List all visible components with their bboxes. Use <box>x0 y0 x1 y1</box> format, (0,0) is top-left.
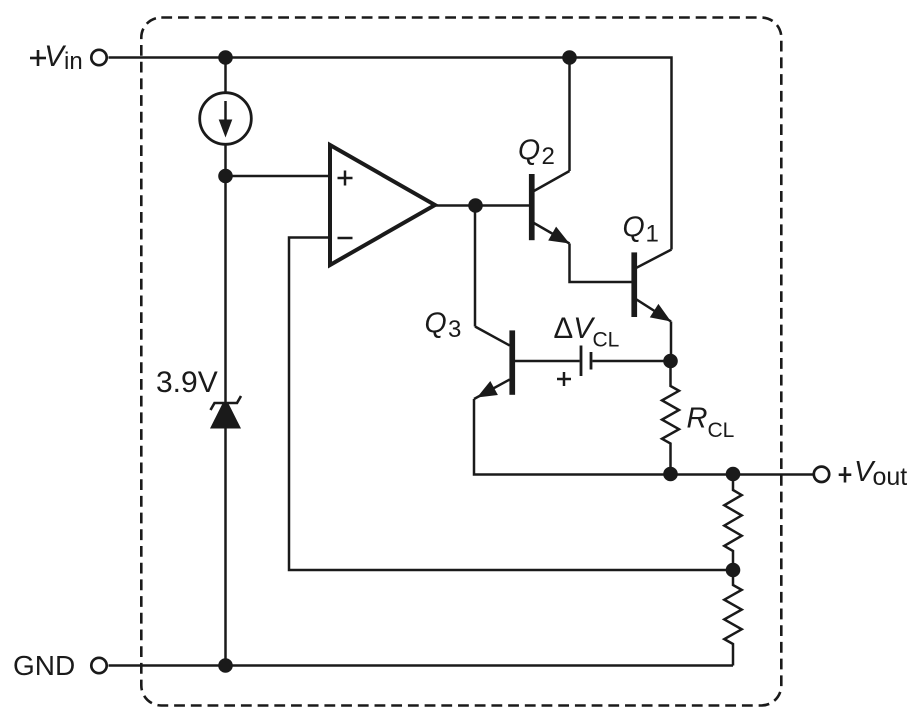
resistor R1 (upper divider) <box>724 475 741 571</box>
resistor R2 (lower divider) <box>724 570 741 666</box>
node: junction dot RCL bottom on output rail <box>663 467 678 482</box>
zener diode D1 (3.9V) <box>210 396 241 429</box>
wire: ground rail <box>109 664 734 667</box>
svg-text:CL: CL <box>593 329 620 352</box>
svg-text:R: R <box>687 403 708 435</box>
wire: Q3 emitter down and right to output rail <box>474 399 671 475</box>
terminal GND <box>91 658 106 673</box>
current source I <box>200 93 252 145</box>
transistor Q1 <box>631 250 671 322</box>
op-amp U1 <box>330 145 435 265</box>
wire: inverting input feedback (left, down, right to divider tap) <box>289 238 733 571</box>
node: junction dot divider tap <box>726 563 741 578</box>
wire: Q1 emitter down to RCL node <box>670 322 673 362</box>
terminal +Vin <box>91 50 106 65</box>
svg-text:Q: Q <box>425 308 447 340</box>
wire: current source bottom stub <box>224 144 227 176</box>
wire: down to zener <box>224 176 227 402</box>
svg-text:in: in <box>64 48 83 75</box>
battery polarity + <box>557 372 571 386</box>
IC boundary (dashed box) <box>141 18 781 706</box>
terminal +Vout <box>814 467 829 482</box>
wire: Q2 collector up to +Vin rail <box>568 58 571 172</box>
wire: battery to RCL node <box>592 360 670 363</box>
transistor Q2 <box>529 171 570 244</box>
wire: Q2 emitter to Q1 base <box>570 244 632 283</box>
svg-text:1: 1 <box>646 221 659 248</box>
label Q3 <box>425 308 462 344</box>
node: junction dot at op-amp output <box>468 198 483 213</box>
battery cell dVCL <box>581 346 591 377</box>
svg-text:3: 3 <box>448 316 461 343</box>
wire: Q3 base to battery <box>515 360 580 363</box>
label Q1 <box>623 212 659 248</box>
label +Vin <box>30 40 83 75</box>
svg-text:3.9V: 3.9V <box>156 366 218 399</box>
wire: current source top stub <box>224 58 227 94</box>
resistor RCL <box>662 361 679 475</box>
node: junction dot +Vin rail / current source <box>218 50 233 65</box>
node: junction dot divider top on output rail <box>726 467 741 482</box>
wire: output rail to +Vout terminal <box>671 473 814 476</box>
label Q2 <box>518 135 555 171</box>
node: junction dot on ground rail <box>218 658 233 673</box>
svg-text:Q: Q <box>518 135 540 167</box>
node: junction dot below current source <box>218 169 233 184</box>
wire: op-amp output to Q2 base <box>435 204 530 207</box>
svg-text:out: out <box>873 463 908 491</box>
transistor Q3 <box>474 327 515 400</box>
svg-text:Q: Q <box>623 212 645 244</box>
svg-text:2: 2 <box>542 143 555 170</box>
svg-text:CL: CL <box>708 419 735 442</box>
node: junction dot Q1 emitter / RCL top <box>663 354 678 369</box>
wire: to op-amp noninverting input <box>226 175 331 178</box>
label RCL <box>687 403 735 443</box>
label +Vout <box>839 456 908 491</box>
svg-text:GND: GND <box>13 650 75 681</box>
svg-text:ΔV: ΔV <box>554 312 596 345</box>
node: junction dot Q2 collector on rail <box>562 50 577 65</box>
wire: output node down to Q3 collector <box>474 206 477 327</box>
label dVCL <box>554 312 620 352</box>
wire: +Vin rail to top-right corner, down to Q1 collector <box>109 58 672 250</box>
svg-text:V: V <box>44 40 66 73</box>
wire: zener to ground rail <box>224 428 227 665</box>
